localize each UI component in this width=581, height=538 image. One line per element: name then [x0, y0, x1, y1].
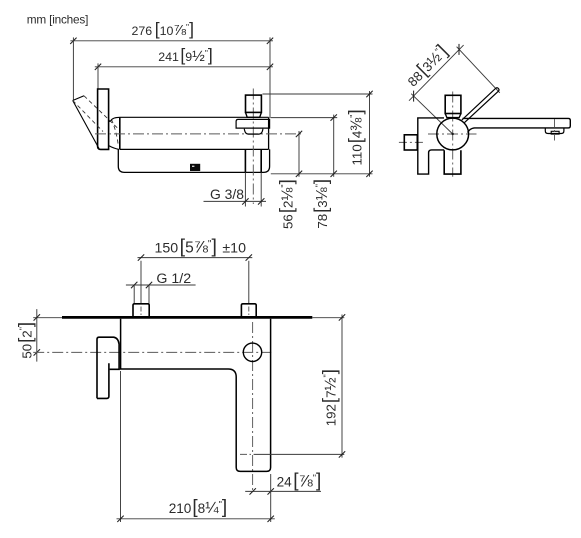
tick 241 left [95, 64, 101, 70]
side upper stub chamfer [445, 114, 461, 118]
svg-text:56[2⅛"]: 56[2⅛"] [276, 179, 297, 229]
dimension 241 line [95, 66, 273, 68]
dim 192 extension at spout level [240, 453, 254, 455]
flange [236, 119, 270, 128]
wall line thick [62, 316, 312, 319]
svg-text:G 3/8: G 3/8 [210, 186, 244, 202]
dim 24 ext [270, 474, 272, 495]
extension line y94 right [263, 93, 373, 95]
logo mark [190, 164, 200, 171]
dim 50 line [36, 309, 38, 362]
side valve circle [437, 118, 469, 150]
body cap hidden dashed arc [112, 120, 119, 146]
dim 150 extension lines [140, 261, 142, 304]
side horizontal centerline through circle [428, 133, 477, 135]
tick 88 high [458, 44, 460, 55]
svg-text:150[5⅞"]±10: 150[5⅞"]±10 [155, 236, 247, 258]
svg-text:78[3⅛"]: 78[3⅛"] [310, 179, 331, 229]
tick 276 left [70, 38, 76, 44]
diverter circle [243, 343, 261, 361]
lower plate outline [118, 149, 269, 172]
svg-text:192[7½"]: 192[7½"] [318, 369, 339, 426]
dim 24 line [245, 490, 321, 492]
svg-text:mm [inches]: mm [inches] [27, 12, 88, 26]
side body block [418, 118, 444, 174]
G1/2 ticks [131, 282, 137, 288]
svg-text:G 1/2: G 1/2 [156, 271, 191, 287]
tick 241 right [267, 64, 273, 70]
aerator centerline [554, 119, 556, 141]
centerline fitting vertical [252, 89, 254, 205]
G3/8 label line [204, 200, 267, 202]
right inlet stub [241, 304, 256, 318]
dim 210 ext left [120, 371, 122, 522]
dim 78 vertical line [333, 115, 335, 177]
dim 110 text [345, 109, 366, 165]
lever bar [462, 88, 499, 123]
G1/2 label line [126, 284, 196, 286]
dim 88 text [401, 40, 451, 90]
dim 78 text [310, 179, 331, 229]
G1/2 extension verticals [133, 285, 135, 304]
side stub centerline [399, 141, 425, 143]
lever tip edge solid [73, 96, 84, 101]
lever silhouette curve [73, 101, 99, 149]
side upper stub square [445, 95, 461, 113]
body cap outline lower [109, 146, 120, 150]
wall ext left (50 dim) [33, 317, 62, 319]
dim 88 line [409, 45, 464, 101]
tick 276 right [267, 38, 273, 44]
dim 88 extension from lever tip [457, 47, 500, 93]
dim 50 text [14, 322, 35, 359]
wall ext right (192 dim) [312, 317, 344, 319]
lower fitting right edge [260, 150, 262, 173]
nut below flange [244, 129, 263, 134]
side lower fitting [444, 150, 461, 174]
svg-text:50[2"]: 50[2"] [14, 322, 35, 359]
front body outline [121, 319, 271, 472]
lever hidden edge dashed 1 [73, 101, 103, 132]
tick G3/8 left [242, 198, 248, 204]
body top edge [111, 117, 269, 121]
dim 88 extension from center [411, 94, 453, 134]
body left edge [119, 118, 121, 150]
side vertical centerline [452, 92, 454, 177]
dim 210 ext right [270, 495, 272, 522]
svg-text:24[⅞"]: 24[⅞"] [277, 470, 322, 491]
handle base rect (top view) [98, 89, 109, 149]
spout side [463, 118, 571, 132]
nipple chamfer [246, 112, 262, 117]
dim 56 vertical line [298, 131, 300, 177]
lever hidden edge dashed 2 [84, 96, 118, 128]
extension lines to G3/8 label [244, 172, 246, 206]
front handle [97, 337, 119, 398]
centerline top view horizontal [95, 133, 302, 135]
stub centerline dashes [140, 307, 142, 316]
lower fitting left edge [244, 150, 246, 173]
left inlet stub [133, 304, 149, 318]
extension line 276 left [72, 37, 74, 100]
front vertical centerline (spout axis) [252, 322, 254, 492]
tick 88 low [413, 91, 415, 102]
svg-text:276[10⅞"]: 276[10⅞"] [132, 19, 194, 39]
center dot [452, 133, 454, 135]
svg-text:110[4⅜"]: 110[4⅜"] [345, 109, 366, 165]
dim 210 line [117, 518, 275, 520]
dim 150 line [138, 257, 253, 259]
G3/8 nipple square [246, 95, 262, 112]
extension line right shared [269, 37, 271, 118]
extension line 241 left [97, 63, 99, 89]
aerator [545, 128, 564, 133]
dim 110 vertical line [369, 91, 371, 177]
dim 192 line [341, 315, 343, 458]
extension line y173.8 right [271, 173, 373, 175]
body bottom / plate top line [120, 148, 269, 150]
svg-text:241[9½"]: 241[9½"] [158, 45, 213, 65]
tick G3/8 right [258, 198, 264, 204]
svg-text:210[8¼"]: 210[8¼"] [169, 497, 227, 518]
dim 56 text [276, 179, 297, 229]
front horizontal centerline [33, 351, 271, 353]
body cap outline upper [108, 121, 110, 122]
body right edge [268, 117, 270, 149]
dimension 276 line [70, 40, 273, 42]
dim 192 text [318, 369, 339, 426]
side wall stub [404, 135, 417, 150]
extension line y117.6 right [271, 117, 337, 119]
